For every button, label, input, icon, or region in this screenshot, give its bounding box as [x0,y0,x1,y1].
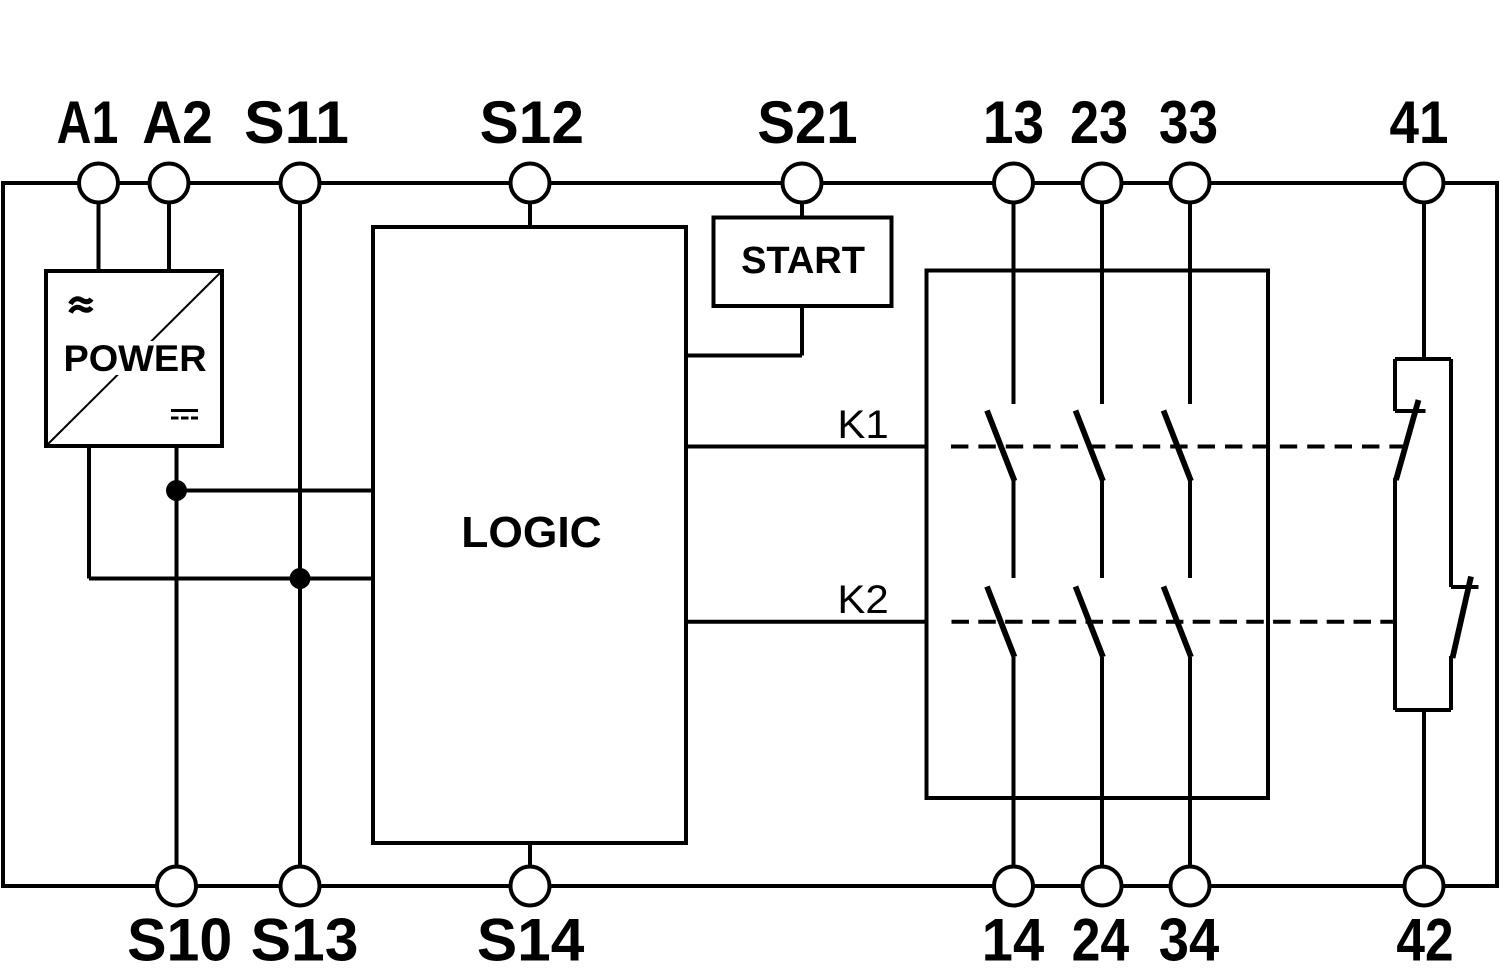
DC symbol solid line in POWER block [171,409,198,412]
wire NC top horizontal [1395,357,1451,361]
wire node to LOGIC upper horizontal [177,489,374,493]
device enclosure outline [3,183,1497,886]
wire contact column 23 upper [1100,182,1104,404]
terminal 41 [1405,164,1444,203]
wire POWER left pin down [87,446,91,579]
wire contact column 23 middle [1100,480,1104,578]
wire contact column 33 lower to 34 [1188,657,1192,886]
dashed actuation link K1 [951,445,1403,449]
wire K1 coil drive [686,445,927,449]
label POWER [61,341,211,375]
wire A1 to POWER [97,182,101,271]
terminal 42 [1405,867,1444,906]
terminal 14 [994,867,1033,906]
svg-text:14: 14 [982,907,1044,974]
wire NC to 42 [1422,710,1426,886]
wire contact column 23 lower to 24 [1100,657,1104,886]
svg-text:POWER: POWER [63,337,206,378]
svg-text:K2: K2 [837,577,888,622]
DC symbol dashed line in POWER block [171,417,198,420]
wire NC left lower [1393,478,1397,710]
wire POWER right pin to S10 [175,446,179,886]
svg-text:S21: S21 [757,89,857,156]
svg-text:S14: S14 [477,906,585,974]
svg-text:S11: S11 [244,88,349,156]
svg-text:13: 13 [983,90,1044,157]
svg-text:41: 41 [1390,89,1449,156]
wire 41 down [1422,182,1426,361]
wire contact column 33 middle [1188,480,1192,578]
blade NC contact 41-42 K2 row [1453,577,1472,659]
svg-text:34: 34 [1159,907,1220,974]
wire S21 to START [800,182,804,218]
AC symbol in POWER block [71,299,92,313]
diagonal of POWER block [46,271,222,446]
seat of NC contact K1 [1395,409,1426,413]
terminal 33 [1171,164,1210,203]
blade NC contact 41-42 K1 row [1396,400,1419,480]
wire S12 to LOGIC [528,182,532,227]
terminal S12 [511,164,550,203]
svg-text:42: 42 [1396,906,1453,974]
wire contact column 13 lower to 14 [1012,657,1016,886]
terminal 23 [1083,164,1122,203]
svg-text:S12: S12 [480,88,584,156]
wire START to LOGIC vertical [800,306,804,356]
svg-text:A2: A2 [142,90,213,157]
start button block START [714,218,892,307]
wire contact column 13 middle [1012,480,1016,578]
terminal S21 [783,164,822,203]
wire contact column 33 upper [1188,182,1192,404]
wire A2 to POWER [167,182,171,271]
blade NO contact 13-14 K2 row [987,587,1015,658]
terminal S14 [511,867,550,906]
svg-text:A1: A1 [57,89,119,156]
svg-text:START: START [741,240,865,282]
svg-text:23: 23 [1070,89,1128,156]
junction dot node A2-LOGIC [166,480,187,501]
blade NO contact 33-34 K1 row [1164,411,1192,482]
svg-text:LOGIC: LOGIC [461,508,601,557]
seat of NC contact K2 [1451,585,1479,589]
svg-text:K1: K1 [837,402,888,447]
wire S11 to S13 [298,182,302,886]
svg-text:24: 24 [1072,906,1130,973]
relay contact group box [927,271,1269,799]
svg-text:S13: S13 [251,906,359,974]
wire LOGIC to S14 [528,843,532,886]
blade NO contact 33-34 K2 row [1164,587,1192,658]
blade NO contact 23-24 K2 row [1076,587,1104,658]
terminal S10 [157,867,196,906]
logic block LOGIC [373,227,686,843]
wire NC bottom horizontal [1395,708,1451,712]
terminal 13 [994,164,1033,203]
wire NC right lower [1449,656,1453,710]
wire contact column 13 upper [1012,182,1016,404]
junction dot node S11-LOGIC [290,568,311,589]
terminal 24 [1083,867,1122,906]
wire K2 coil drive [686,620,927,624]
dashed actuation link K2 [952,620,1396,624]
svg-text:33: 33 [1159,90,1218,157]
terminal A2 [150,164,189,203]
terminal S11 [281,164,320,203]
terminal S13 [281,867,320,906]
blade NO contact 13-14 K1 row [987,411,1015,482]
wire POWER to LOGIC lower horizontal [89,577,373,581]
terminal A1 [79,164,118,203]
wire NC right upper [1449,359,1453,587]
wire NC left upper [1393,359,1397,411]
terminal 34 [1171,867,1210,906]
svg-text:S10: S10 [127,906,232,974]
power supply block POWER [46,271,222,446]
blade NO contact 23-24 K1 row [1076,411,1104,482]
wire START to LOGIC horizontal [686,354,802,358]
